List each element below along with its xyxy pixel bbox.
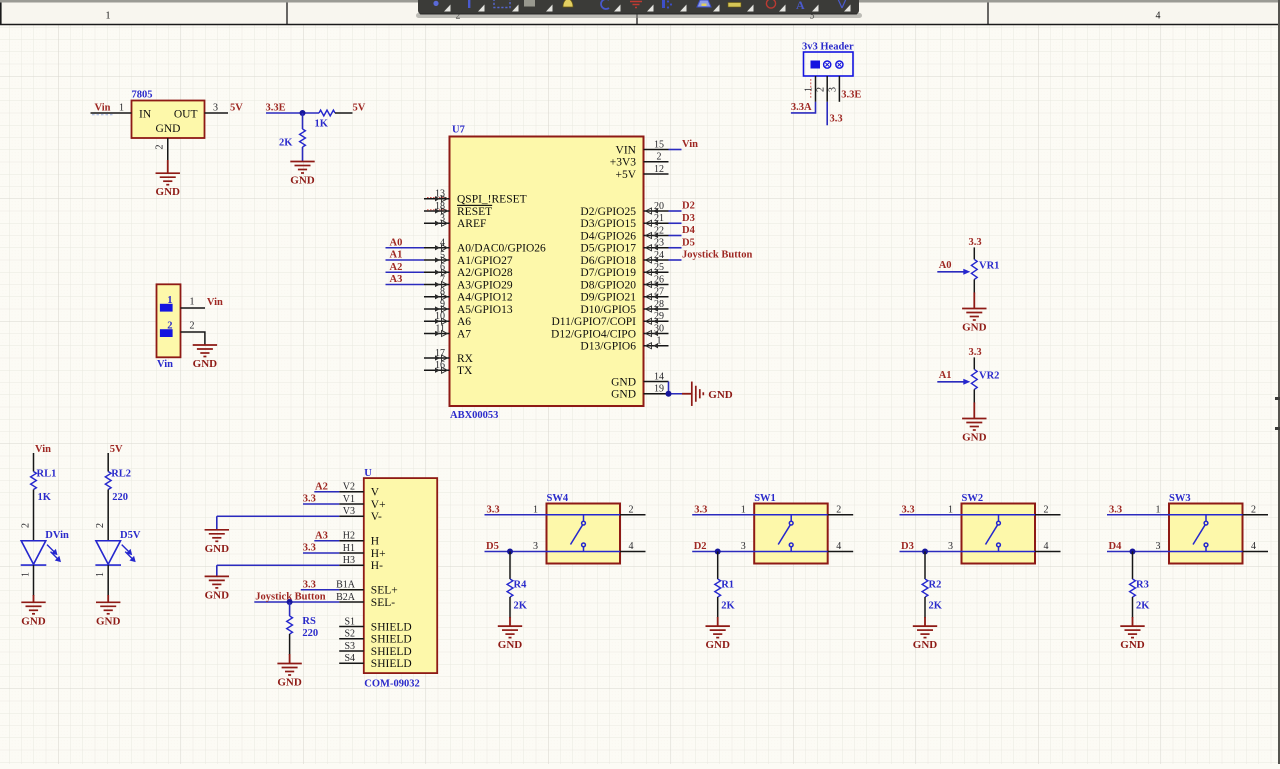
svg-text:A1/GPIO27: A1/GPIO27 bbox=[457, 255, 513, 267]
ground at VR2 bbox=[973, 402, 975, 418]
U7 pin 9 A5/GPIO13 bbox=[424, 299, 513, 316]
svg-text:4: 4 bbox=[836, 541, 841, 552]
svg-text:H2: H2 bbox=[343, 531, 355, 542]
wire 3.3 to SW2 pin 1 bbox=[900, 514, 962, 516]
svg-text:+5V: +5V bbox=[615, 169, 636, 181]
svg-text:D4/GPIO26: D4/GPIO26 bbox=[580, 230, 636, 242]
U7 pin 4 A0/DAC0/GPIO26 bbox=[424, 238, 546, 255]
ground at connector bbox=[193, 345, 218, 370]
joystick pin V2 V bbox=[339, 482, 380, 499]
svg-text:A3: A3 bbox=[315, 530, 328, 541]
SW3 pin number 4 bbox=[1251, 541, 1256, 552]
svg-text:3.3: 3.3 bbox=[902, 504, 915, 515]
wire D4 to SW3 pin 3 bbox=[1107, 551, 1169, 553]
svg-text:2: 2 bbox=[657, 152, 662, 163]
ground at divider bbox=[290, 162, 315, 187]
svg-text:3: 3 bbox=[828, 87, 839, 92]
net label A2 bbox=[390, 262, 403, 273]
connector U COM-09032 joystick bbox=[364, 468, 437, 690]
svg-text:3.3: 3.3 bbox=[303, 543, 316, 554]
svg-text:5V: 5V bbox=[230, 103, 243, 114]
switch SW3 bbox=[1169, 493, 1243, 564]
ground at 7805 bbox=[167, 160, 169, 173]
wire net 3.3 B1A bbox=[301, 589, 339, 591]
svg-text:D13/GPIO6: D13/GPIO6 bbox=[580, 341, 636, 353]
svg-text:2: 2 bbox=[155, 145, 166, 150]
SW3 pin number 2 bbox=[1251, 504, 1256, 515]
wire 3.3E net bbox=[266, 112, 319, 114]
pin number 1 of DVin bbox=[21, 572, 32, 577]
7805 pin number 2 bbox=[155, 145, 166, 150]
svg-text:V3: V3 bbox=[343, 506, 355, 517]
SW4 pin number 2 bbox=[629, 504, 634, 515]
svg-text:OUT: OUT bbox=[174, 109, 198, 121]
svg-text:AREF: AREF bbox=[457, 218, 486, 230]
U7 pin 14 GND bbox=[611, 371, 668, 388]
net label 3.3 at VR1 bbox=[969, 237, 982, 248]
joystick pin S4 SHIELD bbox=[339, 653, 411, 670]
net label 3.3A bbox=[791, 102, 812, 113]
SW2 pin number 1 bbox=[948, 504, 953, 515]
svg-text:IN: IN bbox=[139, 109, 152, 121]
joystick pin H2 H bbox=[339, 531, 379, 548]
net label 3.3 at header bbox=[830, 113, 843, 124]
svg-text:8: 8 bbox=[440, 287, 445, 298]
svg-text:A0: A0 bbox=[390, 237, 403, 248]
joystick pin H1 H+ bbox=[339, 543, 385, 560]
resistor R2 2K bbox=[922, 552, 943, 619]
wire D5 to SW4 pin 3 bbox=[485, 551, 547, 553]
svg-text:R3: R3 bbox=[1136, 580, 1149, 591]
svg-text:A6: A6 bbox=[457, 316, 471, 328]
svg-text:GND: GND bbox=[156, 123, 181, 135]
svg-text:D9/GPIO21: D9/GPIO21 bbox=[580, 292, 636, 304]
svg-text:SHIELD: SHIELD bbox=[371, 634, 412, 646]
svg-text:D3/GPIO15: D3/GPIO15 bbox=[580, 218, 636, 230]
net label 3.3 at SW2 bbox=[902, 504, 915, 515]
net label Vin bbox=[682, 139, 698, 150]
svg-text:SEL-: SEL- bbox=[371, 597, 395, 609]
svg-text:1: 1 bbox=[804, 87, 815, 92]
svg-text:GND: GND bbox=[277, 677, 302, 689]
svg-text:6: 6 bbox=[440, 262, 445, 273]
U7 pin 29 D11/GPIO7/COPI bbox=[551, 311, 668, 328]
header 3v3 Header bbox=[802, 42, 854, 77]
svg-text:D2: D2 bbox=[682, 201, 695, 212]
net label 3.3 at VR2 bbox=[969, 347, 982, 358]
svg-text:H-: H- bbox=[371, 560, 383, 572]
header pin 1 wire bbox=[804, 76, 816, 102]
wire junction to 2K bbox=[302, 113, 304, 129]
U7 pin 30 D12/GPIO4/CIPO bbox=[551, 323, 668, 340]
net label A1 bbox=[939, 370, 952, 381]
svg-text:D6/GPIO18: D6/GPIO18 bbox=[580, 255, 636, 267]
svg-text:V2: V2 bbox=[343, 482, 355, 493]
svg-text:GND: GND bbox=[205, 589, 230, 601]
svg-text:D2: D2 bbox=[694, 541, 707, 552]
U7 pin 28 D10/GPIO5 bbox=[580, 299, 668, 316]
U7 pin 16 TX bbox=[424, 360, 473, 377]
svg-text:3.3E: 3.3E bbox=[266, 103, 286, 114]
svg-text:5V: 5V bbox=[353, 103, 366, 114]
svg-text:GND: GND bbox=[498, 639, 523, 651]
svg-text:GND: GND bbox=[611, 376, 636, 388]
resistor 1K bbox=[315, 110, 336, 129]
U7 pin 11 A7 bbox=[424, 323, 471, 340]
svg-text:GND: GND bbox=[913, 639, 938, 651]
U7 pin 21 D3/GPIO15 bbox=[580, 213, 668, 230]
ground at R3 bbox=[1132, 617, 1134, 626]
svg-text:4: 4 bbox=[1044, 541, 1049, 552]
svg-text:S4: S4 bbox=[344, 653, 355, 664]
joystick pin B1A SEL+ bbox=[336, 580, 398, 597]
resistor R1 2K bbox=[715, 552, 736, 619]
svg-text:2: 2 bbox=[190, 321, 195, 332]
svg-text:1: 1 bbox=[533, 504, 538, 515]
svg-text:ABX00053: ABX00053 bbox=[450, 410, 498, 421]
svg-text:S2: S2 bbox=[344, 629, 355, 640]
SW1 pin number 3 bbox=[741, 541, 746, 552]
svg-text:14: 14 bbox=[654, 371, 664, 382]
net label Vin bbox=[35, 444, 51, 455]
wire net 3.3 V1 bbox=[303, 503, 339, 505]
svg-text:2K: 2K bbox=[514, 601, 528, 612]
wire U7 GND pins bbox=[669, 382, 683, 394]
svg-text:3: 3 bbox=[533, 541, 538, 552]
svg-text:2: 2 bbox=[167, 321, 172, 332]
svg-text:U: U bbox=[364, 468, 372, 479]
U7 pin 7 A3/GPIO29 bbox=[424, 274, 513, 291]
wire net A2 bbox=[314, 491, 339, 493]
pin number 1 of D5V bbox=[95, 572, 106, 577]
net label 5V bbox=[110, 444, 123, 455]
svg-text:3.3: 3.3 bbox=[830, 113, 843, 124]
U7 pin 8 A4/GPIO12 bbox=[424, 287, 513, 304]
svg-text:2K: 2K bbox=[279, 138, 293, 149]
wire SW3 pin 2 bbox=[1243, 514, 1269, 516]
ground at RS bbox=[289, 654, 291, 664]
LED DVin bbox=[21, 530, 69, 565]
svg-text:2: 2 bbox=[1044, 504, 1049, 515]
net label Vin bbox=[92, 103, 113, 115]
svg-text:SW3: SW3 bbox=[1169, 493, 1191, 504]
svg-text:VR2: VR2 bbox=[979, 370, 999, 381]
wire SW1 pin 4 bbox=[828, 551, 854, 553]
svg-text:GND: GND bbox=[705, 639, 730, 651]
svg-text:15: 15 bbox=[654, 139, 664, 150]
net label 3.3 at SW4 bbox=[487, 504, 500, 515]
svg-text:D12/GPIO4/CIPO: D12/GPIO4/CIPO bbox=[551, 328, 636, 340]
svg-text:2K: 2K bbox=[1136, 601, 1150, 612]
svg-text:A3/GPIO29: A3/GPIO29 bbox=[457, 279, 513, 291]
svg-text:RL2: RL2 bbox=[111, 469, 131, 480]
ground at D5V bbox=[107, 595, 109, 602]
svg-text:VIN: VIN bbox=[616, 144, 637, 156]
svg-text:D3: D3 bbox=[901, 541, 914, 552]
SW2 pin number 2 bbox=[1044, 504, 1049, 515]
net label A0 bbox=[390, 237, 403, 248]
net label 3.3 at B1A bbox=[303, 579, 316, 590]
junction at joystick button bbox=[287, 599, 293, 605]
wire net A1 bbox=[386, 259, 425, 261]
voltage regulator 7805 bbox=[132, 90, 205, 139]
junction at SW4 bbox=[507, 549, 513, 555]
svg-text:2: 2 bbox=[629, 504, 634, 515]
svg-text:Vin: Vin bbox=[95, 103, 111, 114]
wire H3 to ground bbox=[217, 565, 339, 576]
svg-text:220: 220 bbox=[112, 492, 128, 503]
svg-text:3.3A: 3.3A bbox=[791, 102, 812, 113]
wire DVin to ground bbox=[33, 565, 35, 596]
svg-text:A1: A1 bbox=[390, 250, 403, 261]
svg-text:U7: U7 bbox=[452, 125, 465, 136]
svg-text:2: 2 bbox=[95, 523, 106, 528]
net label 3.3 at SW1 bbox=[694, 504, 707, 515]
wire net D5 bbox=[669, 247, 682, 249]
junction bbox=[300, 110, 306, 116]
svg-text:R1: R1 bbox=[721, 580, 734, 591]
resistor R4 2K bbox=[507, 552, 528, 619]
U7 pin 6 A2/GPIO28 bbox=[424, 262, 513, 279]
svg-text:RS: RS bbox=[302, 616, 316, 627]
ground at VR1 bbox=[973, 292, 975, 308]
U7 pin 17 RX bbox=[424, 348, 474, 365]
svg-text:2K: 2K bbox=[721, 601, 735, 612]
potentiometer VR2 bbox=[937, 357, 999, 404]
svg-text:GND: GND bbox=[962, 322, 987, 334]
svg-text:A1: A1 bbox=[939, 370, 952, 381]
joystick pin S3 SHIELD bbox=[339, 641, 411, 658]
svg-text:D8/GPIO20: D8/GPIO20 bbox=[580, 279, 636, 291]
svg-text:SHIELD: SHIELD bbox=[371, 658, 412, 670]
wire SW4 pin 4 bbox=[620, 551, 646, 553]
SW2 pin number 3 bbox=[948, 541, 953, 552]
svg-text:TX: TX bbox=[457, 365, 473, 377]
junction at U7 ground bbox=[666, 391, 672, 397]
ground at DVin bbox=[33, 595, 35, 602]
svg-text:V-: V- bbox=[371, 511, 382, 523]
U7 pin 18 RESET bbox=[424, 201, 492, 218]
LED D5V bbox=[95, 530, 140, 565]
svg-text:D7/GPIO19: D7/GPIO19 bbox=[580, 267, 636, 279]
svg-text:Vin: Vin bbox=[207, 297, 223, 308]
svg-text:SHIELD: SHIELD bbox=[371, 646, 412, 658]
svg-text:H+: H+ bbox=[371, 548, 386, 560]
U7 pin 22 D4/GPIO26 bbox=[580, 225, 668, 242]
wire SW4 pin 2 bbox=[620, 514, 646, 516]
7805 pin number 3 bbox=[213, 103, 218, 114]
SW4 pin number 1 bbox=[533, 504, 538, 515]
svg-text:A3: A3 bbox=[390, 274, 403, 285]
net label Joystick Button bbox=[255, 592, 325, 603]
svg-text:SW1: SW1 bbox=[754, 493, 776, 504]
wire 3.3 to SW1 pin 1 bbox=[692, 514, 754, 516]
connector pin number 1 bbox=[190, 297, 195, 308]
net label A3 bbox=[315, 530, 328, 541]
svg-text:3.3E: 3.3E bbox=[841, 89, 861, 100]
svg-text:GND: GND bbox=[21, 615, 46, 627]
connector pin number 2 bbox=[190, 321, 195, 332]
wire net A0 bbox=[386, 247, 425, 249]
net label D2 bbox=[694, 541, 707, 552]
wire connector pin 1 bbox=[181, 307, 206, 309]
net label A1 bbox=[390, 250, 403, 261]
ground at R4 bbox=[509, 617, 511, 626]
svg-text:RL1: RL1 bbox=[37, 469, 57, 480]
svg-text:GND: GND bbox=[290, 175, 315, 187]
wire connector pin 2 to ground bbox=[181, 332, 205, 345]
U7 pin 3 AREF bbox=[424, 213, 486, 230]
svg-text:19: 19 bbox=[654, 384, 664, 395]
wire 3.3 to SW4 pin 1 bbox=[485, 514, 547, 516]
svg-text:V: V bbox=[371, 487, 380, 499]
wire D3 to SW2 pin 3 bbox=[900, 551, 962, 553]
SW3 pin number 3 bbox=[1156, 541, 1161, 552]
svg-text:D5V: D5V bbox=[120, 530, 141, 541]
wire net Joystick Button bbox=[669, 259, 682, 261]
svg-text:7: 7 bbox=[440, 274, 445, 285]
svg-text:COM-09032: COM-09032 bbox=[364, 679, 419, 690]
wire 1K to 5V bbox=[335, 112, 353, 114]
svg-text:GND: GND bbox=[156, 186, 181, 198]
wire net Vin to 7805 pin 1 bbox=[91, 112, 132, 114]
svg-text:S3: S3 bbox=[344, 641, 355, 652]
svg-text:A2: A2 bbox=[315, 481, 328, 492]
switch SW4 bbox=[547, 493, 621, 564]
resistor RS 220 bbox=[287, 602, 318, 655]
svg-text:GND: GND bbox=[962, 432, 987, 444]
resistor RL2 220 bbox=[105, 453, 131, 541]
joystick pin B2A SEL- bbox=[336, 592, 395, 609]
svg-text:GND: GND bbox=[708, 389, 733, 401]
potentiometer VR1 bbox=[937, 247, 999, 294]
net label A2 bbox=[315, 481, 328, 492]
svg-text:A: A bbox=[796, 0, 805, 12]
U7 pin 26 D8/GPIO20 bbox=[580, 274, 668, 291]
wire net A3 bbox=[386, 284, 425, 286]
wire SW2 pin 4 bbox=[1035, 551, 1061, 553]
wire net 3.3 H1 bbox=[303, 552, 339, 554]
wire net 3.3 bbox=[826, 102, 828, 126]
wire D5V to ground bbox=[107, 565, 109, 596]
wire 2K to ground bbox=[302, 147, 304, 162]
SW4 pin number 3 bbox=[533, 541, 538, 552]
svg-text:3.3: 3.3 bbox=[303, 579, 316, 590]
net label 3.3 at V1 bbox=[303, 494, 316, 505]
svg-text:Vin: Vin bbox=[157, 359, 173, 370]
SW4 pin number 4 bbox=[629, 541, 634, 552]
svg-text:3.3: 3.3 bbox=[487, 504, 500, 515]
svg-text:2K: 2K bbox=[929, 601, 943, 612]
svg-text:R2: R2 bbox=[929, 580, 942, 591]
SW1 pin number 1 bbox=[741, 504, 746, 515]
svg-text:3.3: 3.3 bbox=[303, 494, 316, 505]
svg-text:D11/GPIO7/COPI: D11/GPIO7/COPI bbox=[551, 316, 636, 328]
svg-text:RESET: RESET bbox=[457, 206, 492, 218]
svg-text:2: 2 bbox=[816, 87, 827, 92]
svg-text:1: 1 bbox=[741, 504, 746, 515]
7805 pin number 1 bbox=[119, 103, 124, 114]
svg-text:D4: D4 bbox=[1109, 541, 1123, 552]
U7 pin 20 D2/GPIO25 bbox=[580, 201, 668, 218]
net label D4 bbox=[1109, 541, 1123, 552]
resistor R3 2K bbox=[1130, 552, 1151, 619]
svg-text:GND: GND bbox=[193, 358, 218, 370]
svg-text:VR1: VR1 bbox=[979, 260, 999, 271]
wire net Joystick Button bbox=[254, 601, 339, 603]
svg-text:4: 4 bbox=[1156, 11, 1161, 22]
svg-text:V+: V+ bbox=[371, 499, 386, 511]
junction at SW2 bbox=[922, 549, 928, 555]
U7 pin 27 D9/GPIO21 bbox=[580, 287, 668, 304]
net label 3.3E bbox=[266, 103, 286, 114]
SW1 pin number 2 bbox=[836, 504, 841, 515]
SW1 pin number 4 bbox=[836, 541, 841, 552]
ground at R2 bbox=[924, 617, 926, 626]
svg-text:GND: GND bbox=[205, 543, 230, 555]
IC U7 ABX00053 bbox=[450, 125, 644, 422]
U7 pin 1 D13/GPIO6 bbox=[580, 336, 668, 353]
svg-text:A0: A0 bbox=[939, 260, 952, 271]
wire net D2 bbox=[669, 210, 682, 212]
svg-text:7805: 7805 bbox=[132, 90, 153, 101]
svg-text:3.3: 3.3 bbox=[969, 347, 982, 358]
resistor 2K bbox=[279, 129, 305, 149]
svg-text:2: 2 bbox=[21, 523, 32, 528]
svg-text:1: 1 bbox=[119, 103, 124, 114]
wire V3 to ground bbox=[217, 516, 339, 530]
joystick pin H3 H- bbox=[339, 555, 383, 572]
net label 5V at divider bbox=[353, 103, 366, 114]
net label 3.3E at header bbox=[841, 89, 861, 100]
U7 pin 15 VIN bbox=[616, 139, 669, 156]
svg-text:A7: A7 bbox=[457, 328, 471, 340]
joystick pin S1 SHIELD bbox=[339, 616, 411, 633]
svg-text:GND: GND bbox=[1120, 639, 1145, 651]
svg-text:5: 5 bbox=[440, 250, 445, 261]
SW2 pin number 4 bbox=[1044, 541, 1049, 552]
svg-text:A0/DAC0/GPIO26: A0/DAC0/GPIO26 bbox=[457, 243, 546, 255]
svg-text:SHIELD: SHIELD bbox=[371, 621, 412, 633]
wire 7805 pin 3 to 5V bbox=[205, 112, 229, 114]
net label A3 bbox=[390, 274, 403, 285]
svg-text:3.3: 3.3 bbox=[969, 237, 982, 248]
net label D3 bbox=[901, 541, 914, 552]
svg-text:Joystick Button: Joystick Button bbox=[682, 250, 752, 261]
svg-text:3v3 Header: 3v3 Header bbox=[802, 42, 854, 53]
joystick pin V1 V+ bbox=[339, 494, 385, 511]
ground at V3 bbox=[205, 530, 230, 555]
wire D2 to SW1 pin 3 bbox=[692, 551, 754, 553]
wire net D3 bbox=[669, 222, 682, 224]
wire SW2 pin 2 bbox=[1035, 514, 1061, 516]
switch SW2 bbox=[962, 493, 1036, 564]
wire net 3.3A bbox=[791, 102, 816, 113]
net label 3.3 at SW3 bbox=[1109, 504, 1122, 515]
svg-text:D2/GPIO25: D2/GPIO25 bbox=[580, 206, 636, 218]
svg-text:3: 3 bbox=[213, 103, 218, 114]
svg-text:12: 12 bbox=[654, 164, 664, 175]
svg-text:H: H bbox=[371, 536, 379, 548]
svg-text:GND: GND bbox=[611, 389, 636, 401]
ground at R1 bbox=[717, 617, 719, 626]
svg-text:4: 4 bbox=[1251, 541, 1256, 552]
net label D5 bbox=[682, 237, 695, 248]
svg-text:1: 1 bbox=[167, 295, 172, 306]
connector Vin bbox=[157, 284, 181, 370]
svg-text:3.3: 3.3 bbox=[1109, 504, 1122, 515]
svg-text:3: 3 bbox=[1156, 541, 1161, 552]
